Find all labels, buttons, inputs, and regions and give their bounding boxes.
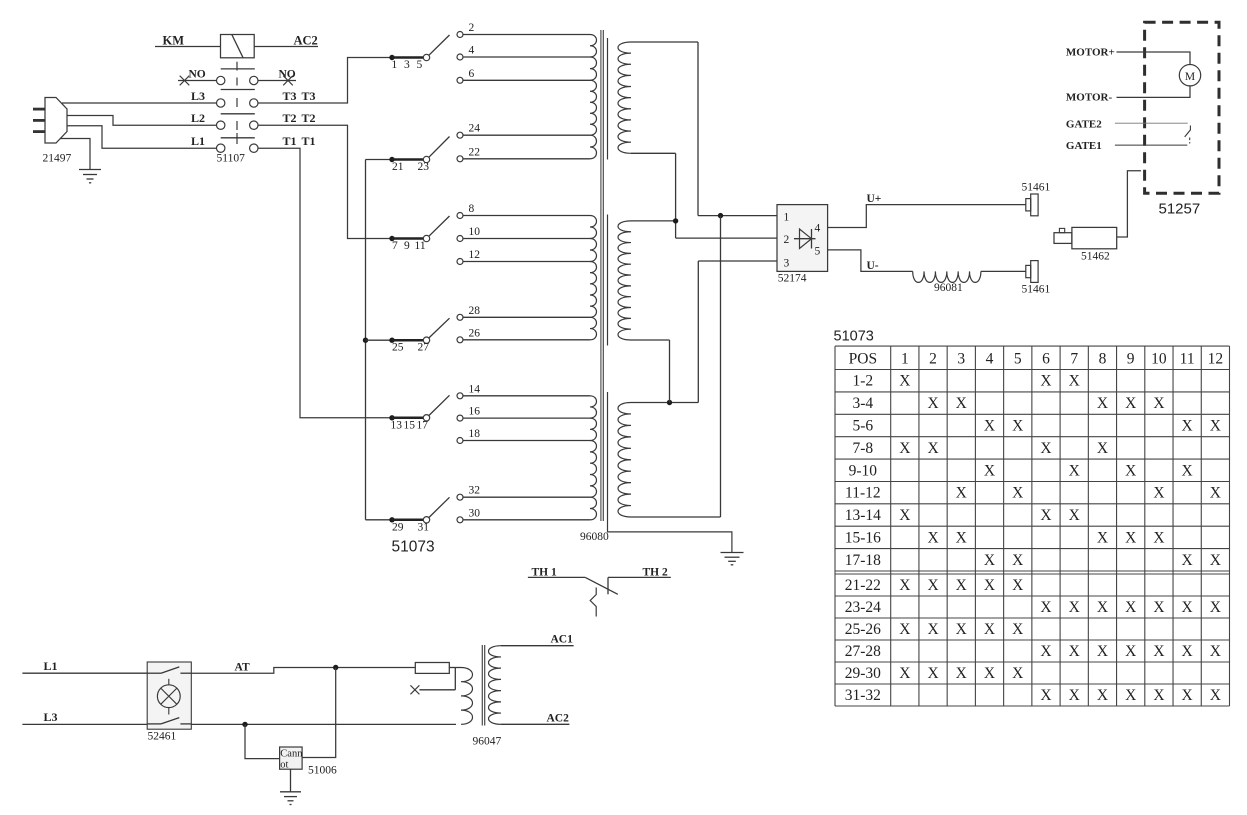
thermostat contact	[607, 577, 609, 594]
contact L1/T1	[217, 144, 225, 152]
svg-text:X: X	[1012, 665, 1023, 682]
svg-text:NO: NO	[279, 69, 296, 81]
wire L1 bottom	[22, 672, 147, 674]
svg-text:AT: AT	[235, 662, 250, 674]
wire AC2 lead	[254, 46, 318, 48]
switch S3 (7 9 11)	[389, 236, 394, 241]
svg-text:X: X	[899, 621, 910, 638]
wire TH1	[528, 576, 585, 578]
svg-text:52461: 52461	[148, 731, 177, 743]
junction pin1 / secC bottom	[718, 213, 723, 218]
svg-text:9: 9	[404, 240, 410, 252]
svg-text:L1: L1	[44, 659, 58, 673]
svg-text:29-30: 29-30	[845, 665, 881, 682]
linkage crossbar 2	[221, 89, 255, 91]
svg-text:X: X	[956, 665, 967, 682]
svg-text:11: 11	[415, 240, 426, 252]
svg-text:X: X	[956, 395, 967, 412]
linkage crossbar 4	[221, 137, 255, 139]
svg-text:2: 2	[784, 234, 790, 246]
capacitor module 51006	[280, 747, 303, 769]
svg-text:X: X	[1125, 643, 1136, 660]
svg-text:X: X	[1040, 599, 1051, 616]
contact 30	[457, 517, 463, 523]
svg-text:X: X	[1125, 687, 1136, 704]
svg-text:8: 8	[469, 203, 475, 215]
transformer 96047 core	[481, 645, 483, 726]
svg-text:X: X	[1182, 687, 1193, 704]
svg-text:2: 2	[929, 351, 937, 368]
svg-text:32: 32	[469, 485, 481, 497]
contact 28	[457, 314, 463, 320]
wire AC2	[501, 723, 569, 725]
svg-text:X: X	[1210, 687, 1221, 704]
svg-text:1: 1	[784, 212, 790, 224]
svg-text:4: 4	[469, 45, 475, 57]
transformer 96047 primary	[461, 668, 472, 725]
wire secondary C top	[631, 402, 670, 404]
contactor linkage dashes	[236, 62, 238, 71]
switch S1 (1 3 5)	[389, 55, 394, 60]
svg-text:X: X	[984, 621, 995, 638]
plug 21497 body	[45, 98, 67, 144]
ground symbol capacitor	[280, 791, 301, 793]
svg-text:96081: 96081	[934, 282, 963, 294]
svg-text:X: X	[1125, 599, 1136, 616]
svg-text:AC1: AC1	[551, 634, 574, 646]
svg-text:15-16: 15-16	[845, 529, 881, 546]
contact 18	[457, 438, 463, 444]
svg-text:T1: T1	[283, 134, 297, 148]
svg-text:X: X	[1012, 577, 1023, 594]
svg-text:27-28: 27-28	[845, 643, 881, 660]
wire capacitor to AT junction	[302, 668, 336, 758]
svg-text:X: X	[984, 577, 995, 594]
svg-text:NO: NO	[189, 69, 206, 81]
svg-text:12: 12	[1208, 351, 1224, 368]
diode symbol	[794, 238, 816, 240]
svg-text:9: 9	[1127, 351, 1135, 368]
thermostat actuator zigzag	[590, 588, 596, 617]
thermal switch inside motor	[1185, 126, 1191, 137]
svg-text:51461: 51461	[1022, 182, 1051, 194]
contact 2	[457, 32, 463, 38]
svg-text:18: 18	[469, 428, 481, 440]
wire secondary A top	[631, 41, 698, 43]
wire GATE2	[1115, 122, 1188, 124]
svg-text:7: 7	[1070, 351, 1078, 368]
svg-text:KM: KM	[163, 33, 185, 47]
svg-text:X: X	[899, 373, 910, 390]
svg-text:3: 3	[957, 351, 965, 368]
svg-text:6: 6	[1042, 351, 1050, 368]
resistor (ballast)	[415, 663, 449, 674]
plug pin 3	[33, 130, 46, 133]
wire plug L1	[67, 126, 216, 149]
svg-text:X: X	[1069, 462, 1080, 479]
wire T1 to switch 13-15-17	[258, 148, 392, 418]
svg-text:X: X	[927, 577, 938, 594]
wire T2 to switch 7-9-11	[258, 125, 392, 238]
wire MOTOR+	[1117, 52, 1191, 65]
svg-text:5-6: 5-6	[853, 418, 874, 435]
contact NO right	[250, 76, 258, 84]
svg-text:X: X	[899, 665, 910, 682]
contact 16	[457, 415, 463, 421]
transformer 96080 core	[600, 30, 602, 521]
lighted switch 52461 box	[147, 662, 191, 729]
motor M	[1179, 65, 1200, 86]
svg-text:4: 4	[815, 223, 821, 235]
svg-text:51006: 51006	[308, 765, 337, 777]
wire secA bottom / secB top to pin 2	[675, 153, 677, 238]
svg-text:24: 24	[469, 123, 481, 135]
parts of table grid	[835, 345, 1230, 347]
svg-text:X: X	[1210, 485, 1221, 502]
wire secondary A bottom	[631, 152, 676, 154]
wire resistor to primary	[449, 667, 461, 669]
svg-text:X: X	[1040, 373, 1051, 390]
svg-text:17: 17	[417, 419, 429, 431]
svg-text:12: 12	[469, 249, 481, 261]
svg-text:X: X	[1210, 552, 1221, 569]
svg-text:1: 1	[901, 351, 909, 368]
svg-text:X: X	[1097, 599, 1108, 616]
svg-text:29: 29	[392, 522, 404, 534]
svg-text:3: 3	[784, 258, 790, 270]
svg-text:X: X	[927, 395, 938, 412]
svg-text:X: X	[956, 577, 967, 594]
svg-text:AC2: AC2	[294, 33, 318, 47]
switch S4 (25 27)	[366, 339, 393, 341]
svg-text:8: 8	[1099, 351, 1107, 368]
svg-text:X: X	[1153, 643, 1164, 660]
svg-text:GATE2: GATE2	[1066, 118, 1102, 130]
linkage crossbar 3	[221, 113, 255, 115]
wire plug L2	[67, 116, 216, 126]
svg-text:X: X	[956, 485, 967, 502]
svg-text:1-2: 1-2	[853, 373, 874, 390]
wire common bus switches 21-23 / 25-27 / 29-31	[365, 160, 367, 520]
transformer 96080 shield bar C to ground	[608, 392, 732, 553]
svg-text:X: X	[1125, 395, 1136, 412]
svg-text:51257: 51257	[1159, 201, 1201, 218]
wire shunt to motor box	[1117, 171, 1141, 237]
svg-text:MOTOR-: MOTOR-	[1066, 92, 1113, 104]
plug pin 2	[33, 119, 46, 122]
svg-text:X: X	[1040, 507, 1051, 524]
connector 51461 bottom	[1026, 265, 1031, 277]
svg-text:22: 22	[469, 146, 481, 158]
svg-text:T3: T3	[302, 89, 316, 103]
wire L3 to transformer	[191, 723, 456, 725]
svg-text:27: 27	[418, 342, 430, 354]
svg-text:23-24: 23-24	[845, 599, 881, 616]
wire secB bottom / secC top to pin 3	[698, 260, 777, 262]
svg-text:TH 1: TH 1	[532, 567, 557, 579]
wire secondary B top	[631, 220, 676, 222]
wire secA top to rectifier pin 1	[697, 42, 699, 216]
svg-text:X: X	[1125, 529, 1136, 546]
contact 24	[457, 132, 463, 138]
switch S5 (13 15 17)	[389, 415, 394, 420]
contact 10	[457, 236, 463, 242]
wire secondary C bottom	[631, 516, 721, 518]
svg-text:13-14: 13-14	[845, 507, 881, 524]
svg-text:51107: 51107	[217, 152, 246, 164]
switch bottom pole	[147, 723, 161, 725]
svg-text:X: X	[1012, 485, 1023, 502]
connector 51461 top	[1026, 199, 1031, 211]
svg-text:15: 15	[404, 419, 416, 431]
svg-text:X: X	[984, 665, 995, 682]
shunt 51462	[1072, 227, 1117, 248]
wire T3 to switch 1-3-5	[258, 58, 392, 104]
svg-text:5: 5	[1014, 351, 1022, 368]
dashed enclosure 51257	[1145, 22, 1219, 193]
rectifier 52174 box	[777, 205, 828, 272]
contact 26	[457, 337, 463, 343]
svg-text:51462: 51462	[1081, 251, 1110, 263]
plug pin 1	[33, 108, 46, 111]
wire L3 junction to capacitor	[245, 724, 280, 758]
contact L3/T3	[217, 99, 225, 107]
svg-text:30: 30	[469, 507, 481, 519]
svg-text:X: X	[899, 507, 910, 524]
svg-text:X: X	[1182, 643, 1193, 660]
svg-text:L3: L3	[191, 89, 205, 103]
svg-text:X: X	[1097, 643, 1108, 660]
wire U-	[828, 250, 913, 272]
switch S2 (21 23)	[366, 159, 393, 161]
svg-text:X: X	[1097, 395, 1108, 412]
svg-text:1: 1	[392, 59, 398, 71]
svg-text:13: 13	[391, 419, 403, 431]
svg-text:X: X	[956, 621, 967, 638]
transformer 96080 secondary B	[618, 221, 631, 340]
svg-text:51073: 51073	[392, 539, 435, 556]
svg-text:L1: L1	[191, 134, 205, 148]
svg-text:96080: 96080	[580, 531, 609, 543]
svg-text:4: 4	[986, 351, 994, 368]
svg-text:L3: L3	[44, 710, 58, 724]
svg-text:7-8: 7-8	[853, 440, 874, 457]
svg-text:X: X	[1069, 373, 1080, 390]
switch S6 (29 31)	[366, 519, 393, 521]
svg-text:3: 3	[404, 59, 410, 71]
svg-text:X: X	[1040, 687, 1051, 704]
svg-text:X: X	[899, 577, 910, 594]
contact 14	[457, 393, 463, 399]
svg-text:GATE1: GATE1	[1066, 140, 1102, 152]
wire capacitor ground	[290, 769, 292, 792]
wire secondary B bottom	[631, 339, 670, 341]
svg-text:X: X	[1153, 599, 1164, 616]
svg-text:52174: 52174	[778, 273, 807, 285]
svg-text:AC2: AC2	[547, 713, 570, 725]
transformer 96047 secondary	[488, 646, 501, 725]
svg-text:31: 31	[418, 522, 430, 534]
wire plug earth	[60, 139, 90, 170]
svg-text:X: X	[1153, 395, 1164, 412]
wire L3 bottom	[22, 723, 147, 725]
switch top pole	[147, 672, 161, 674]
inductor 96081	[913, 271, 981, 282]
svg-text:T1: T1	[302, 134, 316, 148]
svg-text:L2: L2	[191, 111, 205, 125]
svg-text:X: X	[1182, 552, 1193, 569]
contact 22	[457, 156, 463, 162]
svg-text:T2: T2	[283, 111, 297, 125]
svg-text:14: 14	[469, 383, 481, 395]
transformer 96080 shield bar A	[607, 38, 609, 160]
svg-text:X: X	[1069, 599, 1080, 616]
lamp	[157, 685, 180, 708]
svg-text:7: 7	[392, 240, 398, 252]
svg-text:X: X	[1125, 462, 1136, 479]
svg-text:11-12: 11-12	[845, 485, 881, 502]
svg-text:31-32: 31-32	[845, 687, 881, 704]
ground symbol transformer	[721, 552, 744, 554]
svg-text:X: X	[927, 621, 938, 638]
svg-text:5: 5	[815, 246, 821, 258]
svg-text:21497: 21497	[43, 152, 72, 164]
svg-text:TH 2: TH 2	[643, 567, 668, 579]
transformer 96080 primary winding P1	[590, 35, 597, 58]
contact 4	[457, 54, 463, 60]
transformer 96080 shield bar B	[607, 215, 609, 346]
svg-text:51073: 51073	[834, 329, 874, 345]
junction L3	[242, 722, 247, 727]
svg-text:16: 16	[469, 406, 481, 418]
svg-text:17-18: 17-18	[845, 552, 881, 569]
svg-text:X: X	[1097, 687, 1108, 704]
svg-text:23: 23	[418, 161, 430, 173]
svg-text:X: X	[984, 552, 995, 569]
contact NO left	[178, 80, 216, 82]
svg-text:X: X	[1069, 507, 1080, 524]
svg-text:X: X	[1097, 440, 1108, 457]
svg-text:9-10: 9-10	[849, 462, 878, 479]
wire AT	[191, 668, 415, 674]
svg-text:11: 11	[1180, 351, 1195, 368]
svg-text:5: 5	[417, 59, 423, 71]
thermostat blade	[585, 577, 618, 594]
wire U+	[828, 205, 1026, 228]
transformer 96080 secondary A	[618, 42, 631, 153]
svg-text:M: M	[1185, 71, 1195, 83]
svg-text:26: 26	[469, 327, 481, 339]
svg-text:X: X	[1040, 643, 1051, 660]
contact 6	[457, 77, 463, 83]
svg-text:T2: T2	[302, 111, 316, 125]
svg-text:X: X	[984, 418, 995, 435]
svg-text:X: X	[1182, 462, 1193, 479]
wire TH2	[608, 576, 671, 578]
svg-text:3-4: 3-4	[853, 395, 874, 412]
svg-text:X: X	[927, 440, 938, 457]
wire KM lead	[155, 46, 221, 48]
transformer 96080 primary winding P2	[590, 216, 597, 239]
svg-text:X: X	[956, 529, 967, 546]
svg-text:21-22: 21-22	[845, 577, 881, 594]
svg-text:X: X	[1153, 529, 1164, 546]
svg-text:X: X	[927, 665, 938, 682]
svg-text:X: X	[1210, 643, 1221, 660]
svg-text:10: 10	[1151, 351, 1167, 368]
transformer 96080 primary winding P3	[590, 396, 597, 418]
wire plug L3	[62, 102, 216, 104]
svg-text:T3: T3	[283, 89, 297, 103]
svg-text:X: X	[1153, 687, 1164, 704]
svg-text:ot: ot	[280, 760, 288, 771]
wire MOTOR-	[1117, 86, 1191, 98]
svg-text:X: X	[1012, 621, 1023, 638]
svg-text:6: 6	[469, 68, 475, 80]
svg-text:X: X	[1210, 599, 1221, 616]
svg-text:X: X	[984, 462, 995, 479]
svg-text:96047: 96047	[473, 736, 502, 748]
wire inductor to connector	[981, 270, 1026, 272]
svg-text:U-: U-	[867, 260, 879, 272]
svg-text:21: 21	[392, 161, 404, 173]
crossed tap	[410, 685, 419, 694]
svg-text:X: X	[1182, 599, 1193, 616]
transformer 96080 secondary C	[618, 403, 631, 518]
junction AT	[333, 665, 338, 670]
svg-text:28: 28	[469, 305, 481, 317]
svg-text:MOTOR+: MOTOR+	[1066, 46, 1115, 58]
svg-text:X: X	[1153, 485, 1164, 502]
svg-text:51461: 51461	[1022, 284, 1051, 296]
svg-text:U+: U+	[867, 193, 882, 205]
contact 32	[457, 494, 463, 500]
contact 12	[457, 259, 463, 265]
svg-text:X: X	[1097, 529, 1108, 546]
wire AC1	[501, 645, 574, 647]
svg-text:10: 10	[469, 226, 481, 238]
svg-text:25: 25	[392, 342, 404, 354]
svg-text:2: 2	[469, 22, 475, 34]
svg-text:X: X	[1069, 687, 1080, 704]
wire GATE1	[1115, 144, 1187, 146]
ground symbol plug	[79, 169, 101, 171]
contact 8	[457, 213, 463, 219]
svg-text:X: X	[1012, 552, 1023, 569]
svg-text:X: X	[899, 440, 910, 457]
junction on common bus	[363, 338, 368, 343]
svg-text:X: X	[1182, 418, 1193, 435]
svg-text:25-26: 25-26	[845, 621, 881, 638]
svg-text:X: X	[1210, 418, 1221, 435]
linkage crossbar 1	[221, 68, 255, 70]
svg-text:X: X	[1040, 440, 1051, 457]
svg-text:X: X	[1069, 643, 1080, 660]
contactor coil box KM	[221, 35, 255, 58]
svg-text:X: X	[1012, 418, 1023, 435]
svg-text:X: X	[927, 529, 938, 546]
svg-text:POS: POS	[849, 351, 877, 368]
svg-text:Cann: Cann	[280, 749, 303, 760]
contact L2/T2	[217, 121, 225, 129]
